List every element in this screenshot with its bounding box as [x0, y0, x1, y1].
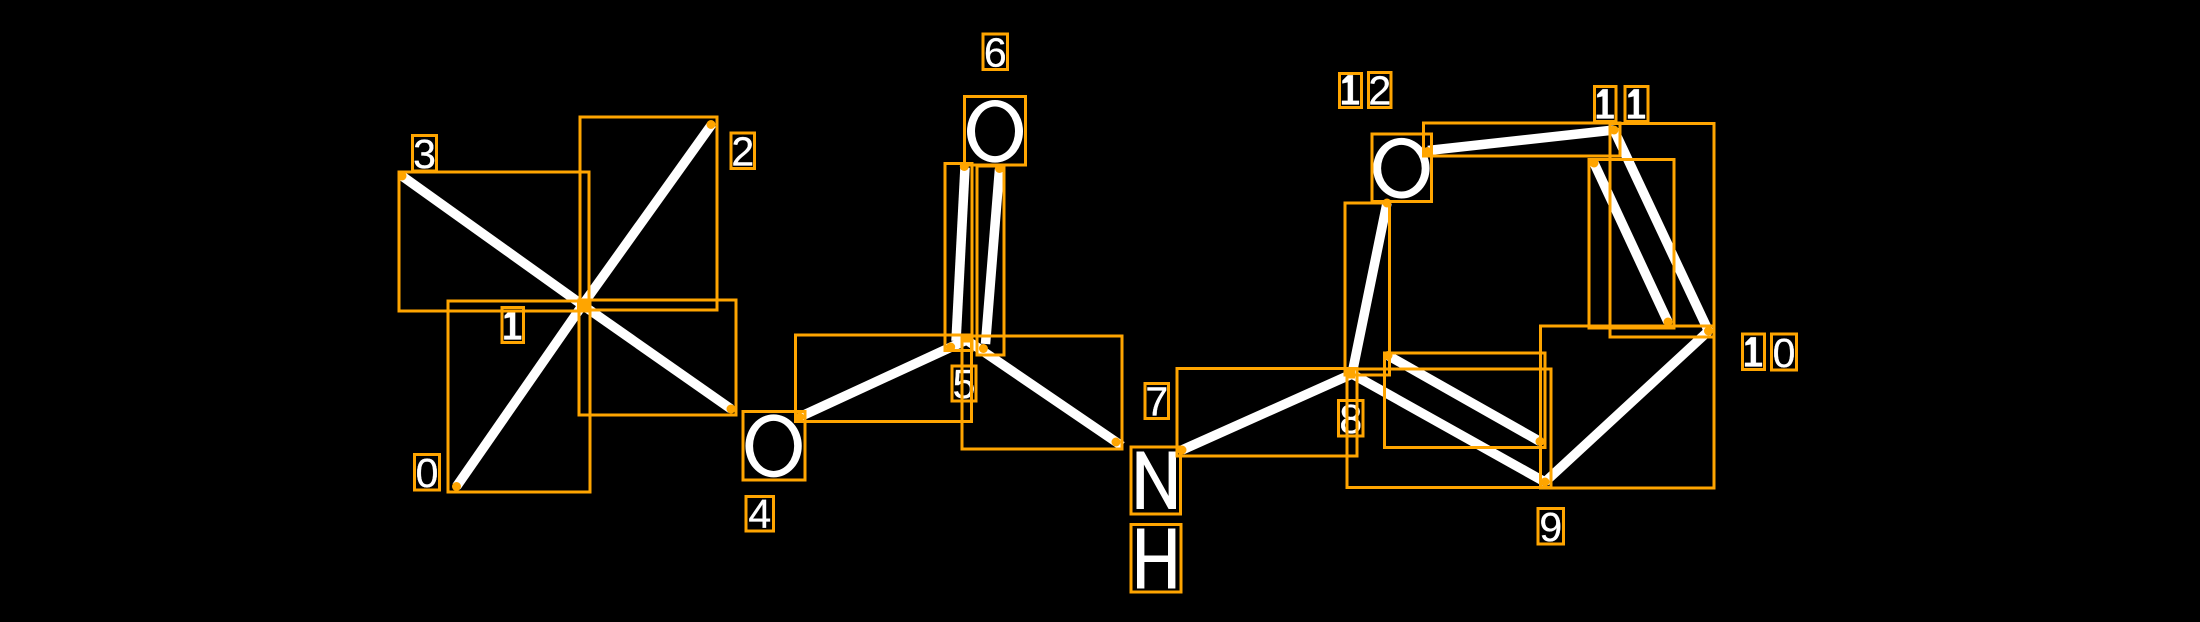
- bond O12-C8 box: [1345, 203, 1390, 375]
- label 2: [731, 133, 755, 169]
- wire bond C5-N7: [967, 340, 1123, 446]
- label 11 digit 1a: [1595, 87, 1617, 122]
- atom N7 letter N box: [1131, 447, 1181, 514]
- bond C1-C0 box: [448, 301, 590, 492]
- label 5: [952, 366, 976, 401]
- bond C5=O6 main line box: [945, 164, 972, 351]
- bond C8=C9 main line box: [1347, 369, 1551, 488]
- bond N7-C8 start dot: [1178, 446, 1187, 455]
- wire bond C1-C2: [583, 124, 713, 305]
- bond O12-C8 start dot: [1383, 199, 1392, 208]
- label 6: [983, 34, 1008, 70]
- bond C5-N7 end dot: [1112, 438, 1121, 447]
- svg-text:2: 2: [731, 129, 754, 175]
- wire bond C8=C9 inner line: [1388, 356, 1540, 442]
- atom C3 endpoint dot: [398, 172, 407, 181]
- label 1: [502, 308, 524, 343]
- wire bond C10=C11 main line: [1614, 130, 1709, 331]
- label 12 digit 1: [1340, 74, 1362, 108]
- wire bond C1-C0: [457, 305, 583, 487]
- svg-text:8: 8: [1339, 396, 1362, 442]
- bond C1-C2 box: [580, 117, 717, 310]
- label 8: [1339, 401, 1364, 437]
- svg-text:7: 7: [1145, 379, 1168, 425]
- label 12 digit 2: [1369, 73, 1392, 108]
- label 0: [415, 455, 440, 491]
- wire bond O12-C8: [1352, 203, 1387, 374]
- bond C1-O4 end dot: [727, 405, 736, 414]
- bond C10=C11 inner line box: [1589, 160, 1674, 329]
- wire bond O4-C5: [800, 340, 967, 417]
- wire bond C1-O4: [583, 305, 732, 409]
- bond C9-C10 box: [1541, 326, 1715, 488]
- wire bond C10=C11 inner line: [1594, 163, 1668, 322]
- atom O6 letter box: [965, 97, 1026, 166]
- bond C5-N7 box: [962, 336, 1122, 449]
- bond O4-C5 start dot: [795, 413, 804, 422]
- label 4: [746, 497, 774, 532]
- bond C5-N7 start dot: [979, 344, 988, 353]
- wire bond C9-C10: [1545, 331, 1709, 482]
- bond C11-O12 box: [1424, 123, 1621, 156]
- atom O12 letter box: [1372, 134, 1432, 202]
- label 7: [1145, 384, 1169, 419]
- svg-text:3: 3: [413, 131, 436, 177]
- wire bond N7-C8: [1182, 374, 1352, 450]
- svg-text:0: 0: [416, 450, 439, 496]
- svg-text:6: 6: [984, 30, 1007, 76]
- label 3: [413, 136, 437, 172]
- bond C5=O6 main top dot: [960, 162, 969, 171]
- atom O6 carbonyl oxygen letter: [967, 100, 1023, 163]
- bond C5=O6 second line box: [977, 166, 1004, 355]
- bond C5=O6 second top dot: [995, 164, 1004, 173]
- svg-text:9: 9: [1539, 504, 1562, 550]
- atom C8 junction square: [1346, 370, 1356, 379]
- label 10 digit 1: [1743, 334, 1765, 370]
- svg-text:0: 0: [1773, 330, 1796, 376]
- bond C8=C9 inner start dot: [1384, 351, 1393, 360]
- bond O4-C5 box: [796, 335, 972, 422]
- bond C10=C11 inner top dot: [1590, 159, 1599, 168]
- label 9: [1538, 509, 1564, 545]
- bond C8=C9 inner line box: [1385, 353, 1546, 448]
- atom C0 endpoint dot: [452, 482, 461, 491]
- atom N7 hydrogen letter H: [1137, 529, 1175, 589]
- atom C5 junction square: [962, 336, 973, 343]
- wire bond C11-O12: [1428, 130, 1614, 151]
- label 11 digit 1b: [1625, 87, 1648, 122]
- bond O4-C5 end dot: [946, 343, 955, 352]
- atom C2 endpoint dot: [707, 120, 716, 129]
- bond C10=C11 inner bottom dot: [1664, 318, 1673, 327]
- bond N7-C8 box: [1177, 369, 1357, 457]
- wire bond C5=O6 main line: [956, 168, 965, 342]
- atom O4 letter box: [743, 412, 805, 481]
- wire bond C1-C3: [402, 176, 583, 305]
- bond C10=C11 main line box: [1610, 124, 1714, 338]
- atom C11 dot: [1610, 126, 1619, 135]
- atom C1 junction square: [577, 300, 588, 311]
- svg-text:2: 2: [1368, 68, 1391, 114]
- atom C10 dot: [1704, 327, 1713, 336]
- bond C1-O4 box: [579, 300, 736, 415]
- atom N7 letter H box: [1131, 525, 1181, 593]
- label 10 digit 0: [1772, 334, 1797, 370]
- atom O4 ester oxygen letter: [745, 414, 801, 477]
- svg-text:4: 4: [748, 491, 771, 537]
- wire bond C8=C9 main line: [1352, 374, 1545, 482]
- atom N7 nitrogen letter N: [1137, 452, 1177, 510]
- bond C1-C3 box: [399, 172, 589, 311]
- bond C8=C9 inner end dot: [1536, 437, 1545, 446]
- bond C11-O12 end dot: [1423, 147, 1432, 156]
- wire bond C5=O6 second line: [986, 169, 1000, 344]
- atom C9 dot: [1541, 478, 1550, 487]
- atom O12 ring oxygen letter: [1373, 138, 1429, 199]
